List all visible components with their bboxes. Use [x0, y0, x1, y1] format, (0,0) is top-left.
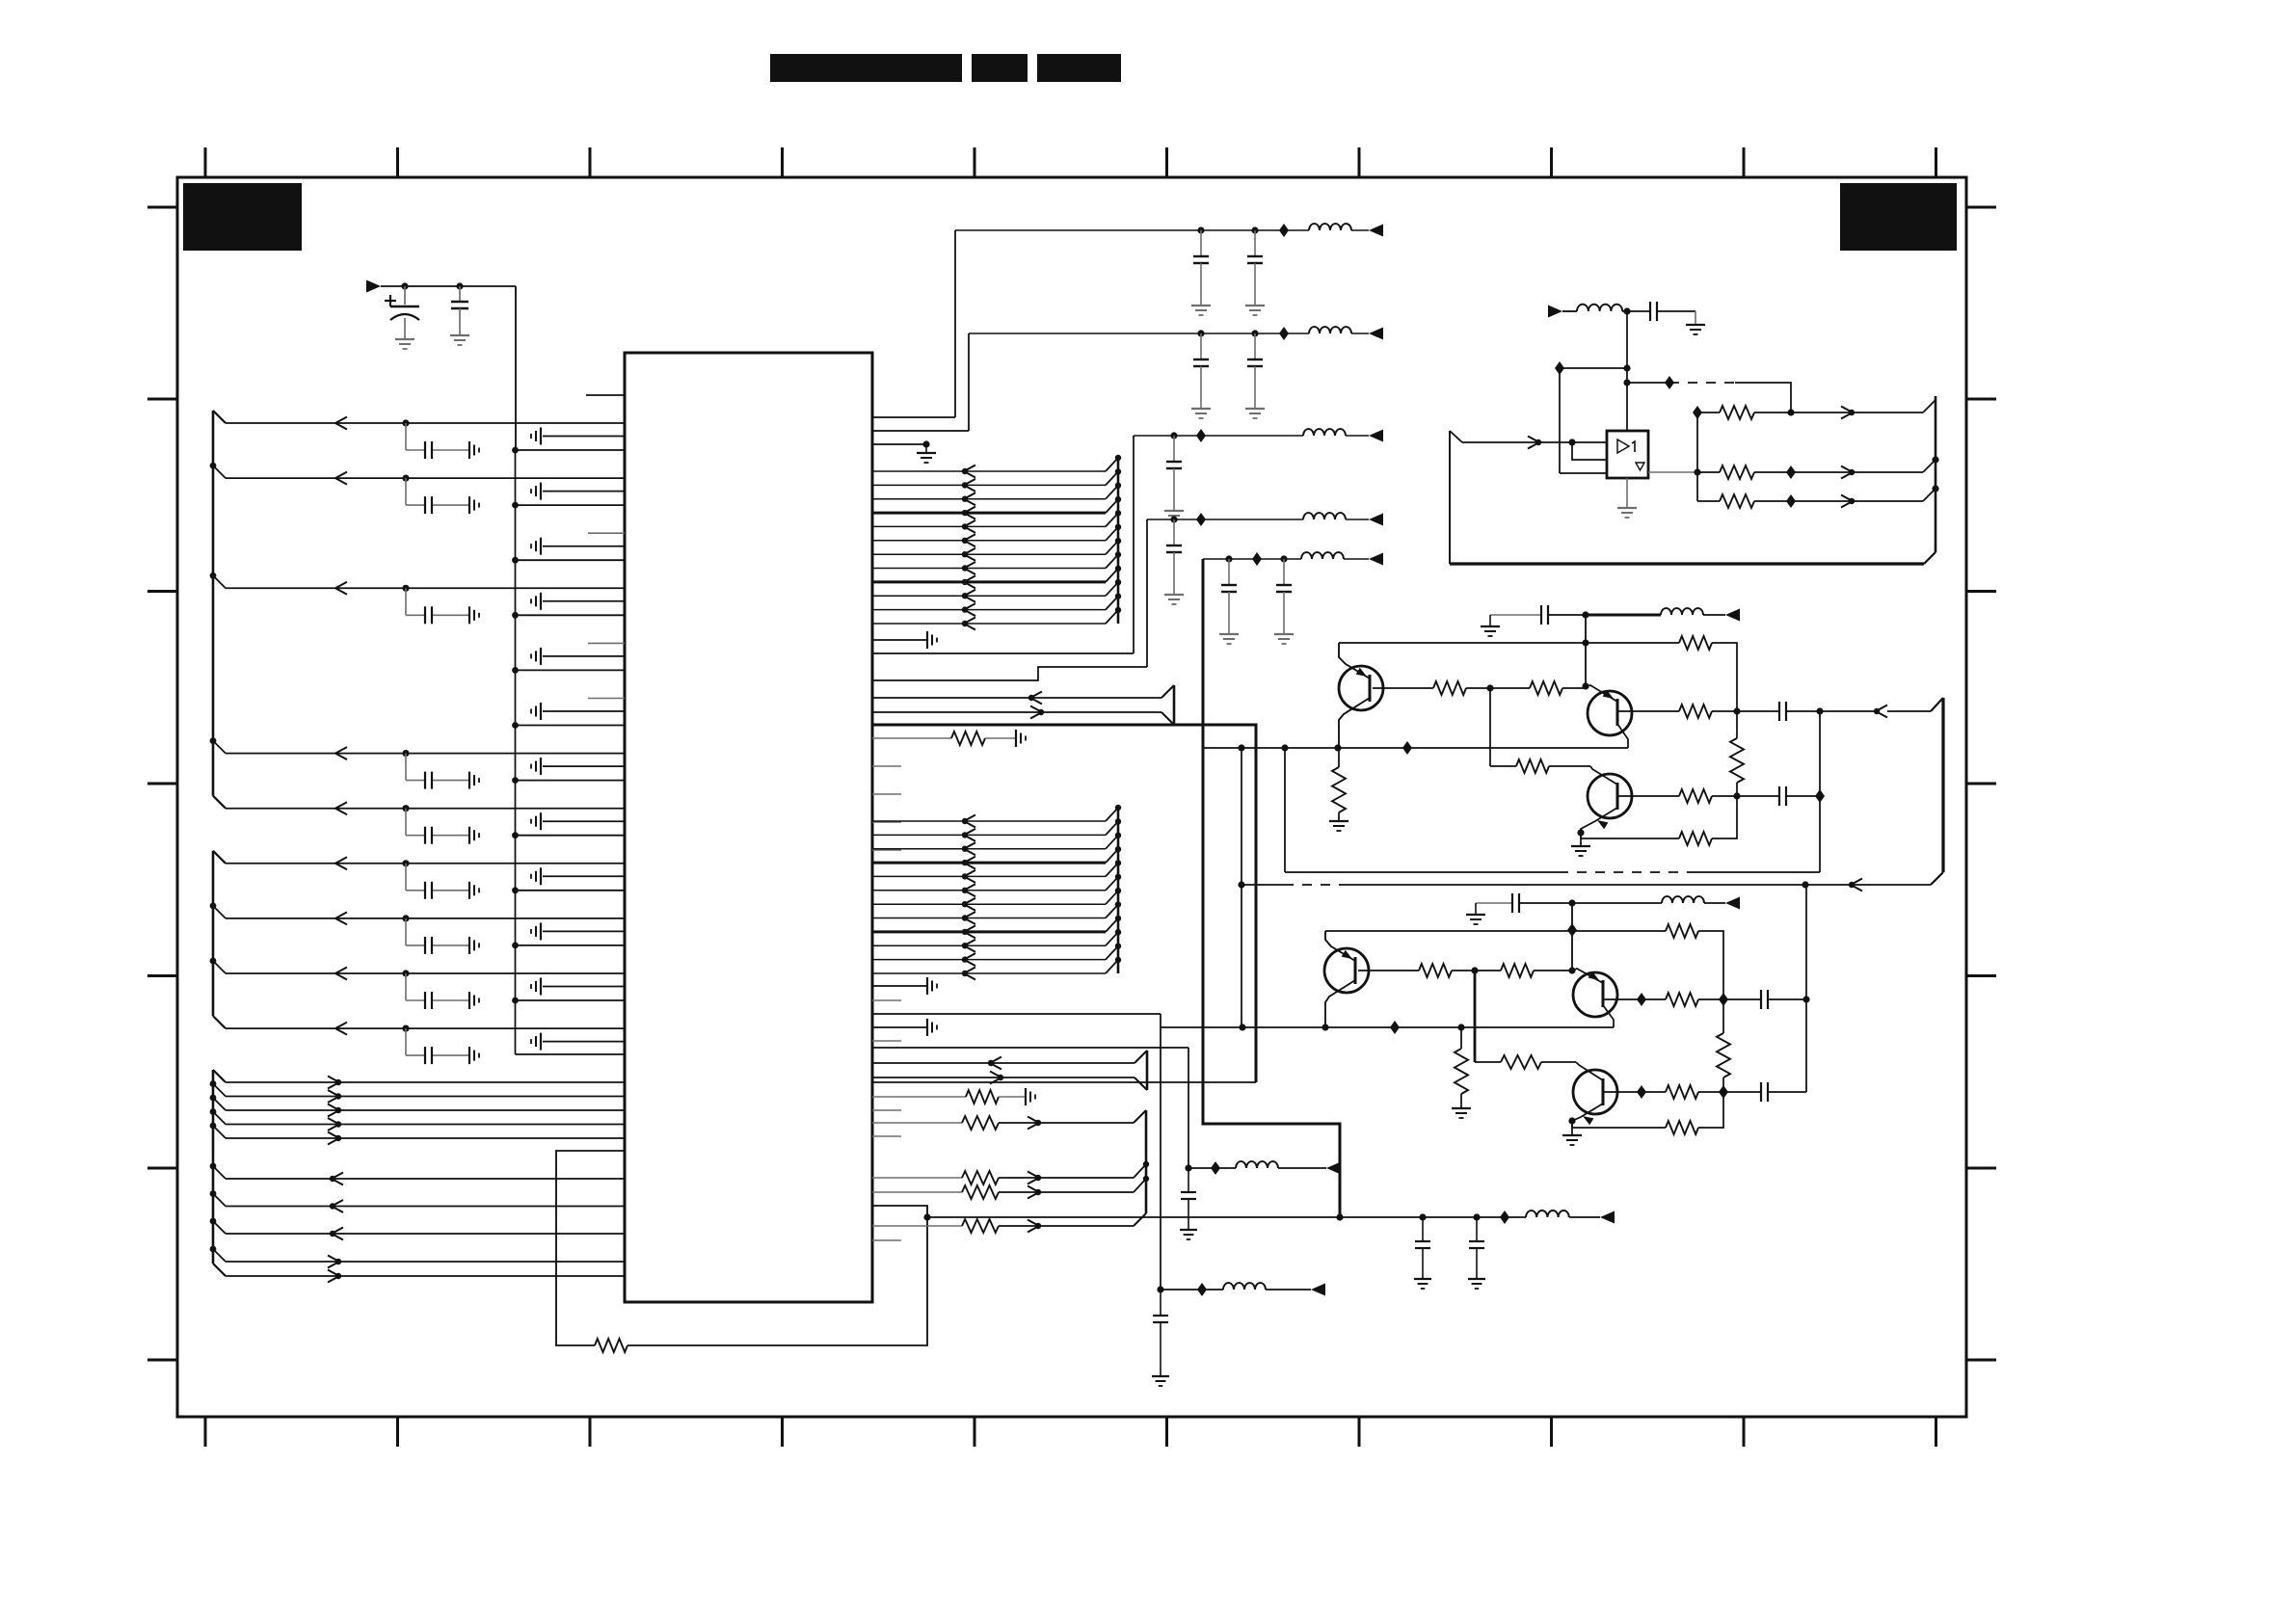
node bus tap	[1115, 901, 1121, 907]
wire Q4 collector lead down	[1325, 980, 1355, 1027]
capacitor C2	[1247, 230, 1263, 306]
junction diamond rail	[1252, 552, 1262, 566]
border tick top 5	[974, 147, 976, 177]
capacitor C_A	[1181, 1168, 1196, 1230]
wire cap branch group 10	[406, 918, 469, 945]
wire loop return to rail C	[927, 1216, 1340, 1218]
wire supply rail	[969, 333, 1309, 334]
ground sideways right 3	[927, 977, 937, 995]
junction diamond row C	[1786, 494, 1796, 508]
arrowhead data out	[328, 1256, 341, 1268]
ground (sideways) pin group 1	[531, 428, 541, 445]
arrowhead signal in group 12	[335, 1023, 347, 1035]
wire Q2 collector out	[1617, 710, 1679, 712]
node bus left 3 tap	[210, 1108, 217, 1115]
wire IC bus line	[872, 903, 1106, 905]
capacitor C_b2	[1779, 702, 1786, 721]
wire rail pin group 10	[516, 945, 626, 946]
border tick bottom 10	[1935, 1417, 1937, 1447]
node Q3 emitter	[1577, 829, 1584, 836]
wire stub pin right	[872, 999, 901, 1001]
wire IC pin resistor row	[872, 1191, 962, 1193]
ground sideways right 2	[1016, 730, 1026, 747]
wire stub pin group 5	[588, 642, 625, 644]
ground below C2	[1245, 306, 1265, 315]
junction diamond column 2 bottom	[1719, 1085, 1728, 1099]
node VCC junction 2	[456, 282, 463, 289]
wire C to bracket	[1786, 710, 1876, 712]
wire cap branch group 11	[406, 973, 469, 1000]
wire IC data line	[226, 1178, 625, 1180]
wire block2 gnd stem	[1475, 903, 1477, 915]
junction diamond rail C	[1500, 1211, 1509, 1224]
border tick right 5	[1966, 974, 1996, 977]
node branch group 4	[402, 585, 409, 592]
wire Q6 collector out	[1603, 1091, 1642, 1093]
container bottom heavy	[1450, 552, 1936, 564]
node v2 bottom	[1239, 1024, 1245, 1030]
wire IC data line	[226, 1233, 625, 1235]
wire block1 rail end	[1703, 614, 1725, 616]
wire return left vertical	[1284, 748, 1286, 872]
wire IC left signal pin group 8	[226, 808, 625, 810]
ground below C6	[1164, 595, 1184, 604]
capacitor C_b1	[1541, 605, 1548, 625]
transistor Q4	[1324, 948, 1369, 993]
bus entry diagonal	[1106, 513, 1118, 526]
node rail tap group 1	[512, 447, 519, 454]
wire rail A end	[1278, 1167, 1326, 1169]
node rail tap group 10	[512, 943, 519, 949]
wire ground pin group 5	[543, 655, 625, 657]
bus left 3 entry diagonal	[213, 1126, 226, 1138]
wire rail pin group 11	[516, 999, 626, 1001]
border tick bottom 6	[1165, 1417, 1168, 1447]
mini bus bracket 2	[1135, 1051, 1147, 1090]
wire supply branch	[1560, 367, 1627, 369]
capacitor C_C2	[1469, 1217, 1484, 1279]
border tick top 4	[781, 147, 784, 177]
junction diamond rail	[1196, 429, 1206, 442]
wire block1 gnd stem	[1489, 615, 1491, 626]
node rail tap group 7	[512, 777, 519, 784]
wire node to R23	[1475, 970, 1501, 971]
wire R13 to node 2	[1562, 687, 1586, 689]
wire C to v-right b	[1768, 1091, 1806, 1093]
junction diamond emitter bus 2	[1390, 1021, 1400, 1034]
wire supply down	[1559, 368, 1561, 473]
wire IC pin mini-bus d	[872, 1077, 1135, 1078]
ground (sideways) pin group 3	[531, 538, 541, 555]
node rail cap tap	[1251, 226, 1258, 233]
wire ground pin group 1	[543, 436, 625, 438]
node bus tap	[1115, 860, 1121, 865]
wire Q4 base	[1358, 970, 1419, 971]
wire to sideways gnd 2	[999, 1096, 1026, 1098]
arrowhead mini-bus d	[990, 1072, 1003, 1084]
wire Q2 collector lead	[1617, 724, 1628, 748]
bus left 1 entry diagonal	[213, 741, 226, 754]
wire feedback to column	[1712, 796, 1737, 838]
wire rail pin group 6	[516, 725, 626, 727]
bus entry diagonal	[1106, 541, 1118, 554]
bus entry diagonal	[1106, 527, 1118, 541]
bus entry diagonal	[1106, 499, 1118, 513]
junction diamond rail B	[1197, 1283, 1207, 1296]
wire Q6 emitter lead	[1572, 1104, 1603, 1121]
wire R14 to Q3	[1549, 765, 1590, 767]
arrowhead bus line	[962, 590, 975, 602]
resistor R28	[1717, 1033, 1730, 1078]
border tick top 6	[1165, 147, 1168, 177]
bus entry diagonal	[1106, 905, 1118, 918]
wire supply rail end	[1351, 229, 1369, 231]
arrowhead data in	[330, 1173, 343, 1185]
wire IC left signal pin group 10	[226, 918, 625, 919]
connector arrow rail	[1369, 328, 1383, 340]
wire Q3 upper lead	[1590, 766, 1617, 785]
node VCC junction 1	[401, 282, 408, 289]
wire supply rail end	[1351, 333, 1369, 334]
wire IC pin to rail A riser	[872, 1047, 1188, 1049]
wire cap branch group 4	[406, 588, 469, 615]
wire resistor row to bus	[999, 1122, 1134, 1124]
bus left 1 bottom chamfer	[213, 796, 226, 809]
arrowhead bus line	[962, 815, 975, 828]
node rail tap group 4	[512, 612, 519, 619]
wire return R1 solid left	[1285, 871, 1559, 873]
arrowhead signal in group 2	[335, 472, 347, 485]
node bus tap	[1115, 510, 1121, 516]
ground (sideways) group 11	[469, 992, 479, 1009]
wire supply loop return	[872, 1081, 1256, 1083]
junction diamond dashed feed	[1665, 376, 1674, 389]
ground (sideways) group 9	[469, 882, 479, 899]
wire IC pin to rail 4 riser	[872, 667, 1147, 680]
junction diamond rail A	[1211, 1161, 1220, 1175]
bus bracket right heavy	[1941, 698, 1944, 872]
ground (sideways) group 7	[469, 772, 479, 789]
node bus c	[1932, 485, 1938, 492]
wire left ground rail vertical	[515, 450, 517, 1054]
bus entry diagonal	[1106, 597, 1118, 610]
arrowhead op-amp input	[1528, 437, 1541, 449]
wire stub pin right	[872, 849, 901, 851]
ground block2 top	[1466, 915, 1485, 924]
wire Q6 feedback row	[1572, 1127, 1666, 1129]
wire IC pin to rail 1 riser	[872, 416, 955, 418]
capacitor Cc5 group 8	[425, 827, 432, 844]
bracket bus entry diagonal	[1134, 1179, 1146, 1192]
node bracket bus tap	[1143, 1176, 1149, 1182]
wire IC pin to rail B riser	[872, 1013, 1161, 1015]
node rail C cap 1	[1419, 1213, 1426, 1220]
node rail cap tap	[1280, 555, 1287, 562]
wire C to v-right	[1768, 998, 1806, 1000]
bus entry diagonal	[1106, 891, 1118, 904]
node rail cap tap	[1225, 555, 1232, 562]
IC U1 (main processor)	[625, 353, 872, 1302]
wire to sideways gnd	[985, 737, 1016, 739]
wire to dashed feed	[1627, 382, 1669, 384]
inductor L_in	[1577, 305, 1622, 311]
wire gnd leg	[1695, 311, 1696, 325]
ground (sideways) pin group 5	[531, 648, 541, 665]
capacitor C_b5	[1761, 990, 1768, 1009]
wire cap branch group 2	[406, 478, 469, 505]
transistor Q1	[1339, 666, 1383, 710]
bus entry diagonal	[1106, 960, 1118, 973]
arrowhead resistor row	[1028, 1186, 1041, 1199]
wire block2 emitter bus	[1161, 1026, 1614, 1028]
wire IC left signal pin group 11	[226, 972, 625, 974]
bracket bottom chamfer	[1931, 872, 1943, 885]
node bus left 1 tap	[210, 572, 217, 579]
ground below C_C1	[1414, 1279, 1431, 1289]
inductor Lind1	[1309, 224, 1351, 230]
resistor R19	[1679, 832, 1712, 845]
wire to R14	[1490, 765, 1516, 767]
ground below C_B	[1152, 1376, 1169, 1386]
wire stub pin right	[872, 1239, 901, 1241]
bus entry diagonal	[1106, 918, 1118, 932]
wire ground pin group 12	[543, 1041, 625, 1043]
ground block1 top	[1481, 626, 1500, 636]
connector arrow rail	[1369, 553, 1383, 566]
node rail tap group 9	[512, 887, 519, 893]
border tick bottom 8	[1550, 1417, 1553, 1447]
arrowhead bus line	[962, 507, 975, 519]
wire rail pin group 2	[516, 504, 626, 506]
node bus left 3 tap	[210, 1190, 217, 1197]
arrowhead bus line	[962, 842, 975, 855]
inductor Lind5	[1301, 552, 1344, 559]
inductor L_b1	[1661, 608, 1703, 615]
wire op-amp output	[1648, 471, 1697, 473]
capacitor C8	[1276, 559, 1292, 634]
wire IC bus line	[872, 484, 1106, 486]
bus entry diagonal	[1106, 849, 1118, 863]
wire ground pin group 6	[543, 710, 625, 712]
transistor Q2	[1588, 691, 1632, 735]
arrowhead bus line	[962, 492, 975, 505]
arrowhead data out	[328, 1118, 341, 1131]
bus entry diagonal	[1106, 863, 1118, 876]
Q2 emitter arrow	[1603, 690, 1614, 699]
wire ground pin group 8	[543, 820, 625, 822]
bus right vertical	[1117, 808, 1120, 973]
wire IC bus line	[872, 834, 1106, 836]
node return column	[1816, 707, 1823, 714]
capacitor C6	[1166, 519, 1182, 595]
wire Q3 emitter lead	[1581, 808, 1617, 833]
arrowhead signal in group 8	[335, 802, 347, 814]
node bus tap	[1115, 957, 1121, 963]
wire IC pin to rail 3 riser	[872, 652, 1134, 654]
wire VCC to left ground rail	[515, 286, 517, 450]
wire IC bus line	[872, 930, 1106, 933]
border tick left 3	[147, 590, 177, 593]
wire gnd stub drop	[925, 444, 927, 453]
wire A1	[1697, 412, 1720, 413]
arrowhead bus line	[962, 575, 975, 588]
wire IC data line	[226, 1137, 625, 1139]
bus left 2 top chamfer	[213, 851, 226, 864]
wire stub pin right	[872, 1135, 901, 1137]
node bracket bus tap	[1143, 1161, 1149, 1167]
bus left 3 top chamfer	[213, 1070, 226, 1082]
wire supply rail	[955, 229, 1309, 231]
wire supply rail	[1203, 558, 1301, 560]
bus op-amp vertical	[1935, 396, 1937, 552]
Q5 emitter arrow	[1589, 971, 1599, 980]
node bus tap	[1115, 593, 1121, 599]
node bus tap	[1115, 888, 1121, 893]
node branch group 8	[402, 805, 409, 811]
wire filter to op-amp supply	[1626, 311, 1628, 431]
bus left 1 entry diagonal	[213, 466, 226, 478]
arrowhead signal in group 9	[335, 857, 347, 869]
node branch group 10	[402, 915, 409, 921]
wire IC bottom loop right	[627, 1206, 927, 1345]
arrowhead bus line	[962, 829, 975, 841]
Q3 emitter arrow	[1597, 820, 1608, 829]
ground below C1	[1191, 306, 1211, 315]
node rail cap tap	[1170, 432, 1177, 439]
bus left 3 entry diagonal	[213, 1221, 226, 1234]
capacitor C_B	[1153, 1290, 1168, 1376]
wire heavy supply loop	[872, 725, 1256, 1082]
node rail tap group 3	[512, 557, 519, 564]
bus left 1 top chamfer	[213, 411, 226, 423]
wire return column vertical	[1819, 711, 1821, 872]
arrowhead bus line	[962, 884, 975, 896]
wire IC left signal pin group 7	[226, 753, 625, 755]
capacitor Cc6 group 9	[425, 882, 432, 899]
arrowhead signal in group 7	[335, 747, 347, 759]
ground Q3 emitter	[1571, 846, 1590, 856]
wire Q3 feedback row	[1581, 838, 1679, 839]
wire IC data line	[226, 1096, 625, 1098]
wire supply rail end	[1346, 519, 1369, 520]
wire return R1 dashed	[1559, 871, 1691, 873]
bus left 2 bottom chamfer	[213, 1016, 226, 1028]
bus A entry diagonal	[1923, 400, 1936, 412]
border tick bottom 3	[589, 1417, 592, 1447]
resistor R11	[1679, 636, 1712, 650]
node rail cap tap	[1251, 330, 1258, 336]
wire IC bus line	[872, 609, 1106, 611]
arrowhead data in	[330, 1228, 343, 1240]
wire IC bus line	[872, 580, 1106, 583]
wire block1 rail	[1548, 614, 1586, 616]
Q6 base bar	[1602, 1078, 1605, 1105]
wire B2	[1754, 471, 1923, 473]
capacitor C_f	[1650, 302, 1657, 321]
node rail tap group 6	[512, 722, 519, 729]
wire IC data line	[226, 1109, 625, 1111]
border tick left 5	[147, 974, 177, 977]
node filter	[1623, 307, 1630, 314]
op-amp U2	[1607, 431, 1648, 478]
capacitor C_C1	[1415, 1217, 1430, 1279]
arrowhead bus line	[962, 520, 975, 533]
connector arrow input VCC	[366, 280, 381, 293]
wire ground pin group 3	[543, 545, 625, 547]
capacitor C4	[1247, 333, 1263, 409]
ground below C2	[450, 335, 469, 345]
capacitor C5	[1166, 436, 1182, 511]
wire IC bus line	[872, 623, 1106, 625]
border tick right 6	[1966, 1167, 1996, 1170]
bus entry diagonal	[1106, 610, 1118, 624]
wire C2	[1754, 500, 1923, 502]
arrowhead bus line	[962, 479, 975, 492]
redacted corner label left	[183, 183, 302, 251]
wire rail C	[1340, 1216, 1526, 1218]
bus entry diagonal	[1106, 932, 1118, 945]
wire to op-amp in2	[1560, 472, 1607, 474]
wire supply rail	[1134, 435, 1303, 437]
node bus tap	[1115, 818, 1121, 824]
node branch group 7	[402, 750, 409, 757]
ground op-amp	[1617, 508, 1637, 518]
resistor R21	[1666, 924, 1698, 938]
wire R23 to node 2	[1534, 970, 1572, 971]
bus left 3 entry diagonal	[213, 1194, 226, 1207]
wire rail pin group 7	[516, 780, 626, 782]
wire IC pin mini-bus b	[872, 711, 1161, 713]
wire IC data line	[226, 1206, 625, 1208]
wire stub pin right	[872, 821, 901, 823]
bus entry diagonal	[1106, 821, 1118, 835]
node bus tap	[1115, 468, 1121, 474]
wire dashed feed	[1669, 382, 1735, 384]
connector arrow block2	[1725, 897, 1740, 910]
wire IC pin to ground stub	[872, 443, 926, 445]
wire block2 cap feed	[1476, 902, 1512, 904]
capacitor Cc3 group 4	[425, 606, 432, 624]
redacted title block 1	[770, 54, 962, 82]
ground below C3	[1191, 409, 1211, 418]
arrowhead bus line	[962, 912, 975, 924]
bus B entry diagonal	[1923, 460, 1936, 472]
wire rail 2 riser	[968, 333, 970, 431]
wire IC bus line	[872, 959, 1106, 961]
border tick right 2	[1966, 398, 1996, 401]
wire IC bus line	[872, 498, 1106, 500]
wire to R27	[1642, 1091, 1666, 1093]
wire IC bus line	[872, 875, 1106, 877]
node bus left 2 tap	[210, 958, 217, 965]
arrowhead bus line	[962, 925, 975, 938]
ground sideways right 1	[927, 631, 937, 649]
wire op-amp gnd stem	[1626, 478, 1628, 508]
wire IC left signal pin group 12	[226, 1027, 625, 1029]
wire IC bus line	[872, 540, 1106, 542]
border tick bottom 1	[204, 1417, 207, 1447]
wire block2 rail	[1519, 902, 1572, 904]
node v-right a	[1802, 996, 1809, 1002]
junction diamond Q6	[1637, 1085, 1646, 1099]
ground (sideways) group 1	[469, 441, 479, 459]
bus entry diagonal	[1106, 555, 1118, 569]
wire rail B end	[1266, 1289, 1311, 1290]
wire R21 to column	[1698, 931, 1723, 999]
border tick bottom 2	[396, 1417, 399, 1447]
wire supply rail end	[1344, 558, 1369, 560]
arrowhead signal in group 11	[335, 968, 347, 980]
